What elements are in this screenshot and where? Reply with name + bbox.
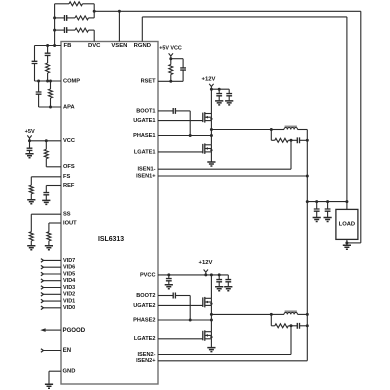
junction COMP-D (49, 80, 52, 83)
wire PHASE1 line (158, 135, 211, 137)
wire branchC bot (38, 94, 40, 107)
svg-text:REF: REF (63, 183, 75, 189)
junction outcap-b (326, 200, 329, 203)
junction vcc-ofs (45, 139, 48, 142)
input arrow VID5 (41, 272, 44, 276)
wire load stem bottom (346, 239, 348, 245)
wire ss drop (30, 214, 32, 232)
svg-text:FB: FB (64, 43, 72, 49)
svg-text:IOUT: IOUT (63, 220, 77, 226)
svg-text:VID1: VID1 (63, 299, 75, 305)
ground q4 source (207, 348, 215, 352)
wire phase1 out (211, 129, 271, 131)
junction boot1-phase (189, 134, 192, 137)
resistor R row2 (75, 16, 89, 20)
capacitor C out-a (314, 209, 320, 211)
wire 12v cap feed1 (211, 88, 229, 90)
wire sense2 left stub (271, 325, 275, 327)
capacitor C pvcc (166, 279, 172, 281)
svg-text:GND: GND (63, 369, 76, 375)
capacitor C boot1 (173, 108, 175, 114)
wire 12v capb top (228, 89, 230, 93)
wire iout drop (48, 223, 50, 232)
wire 12v2 capb bot (227, 282, 229, 287)
svg-text:+5V: +5V (25, 129, 35, 135)
wire sense1 drop (270, 130, 272, 141)
output arrow PGOOD (40, 328, 45, 332)
wire row1 right stub (83, 3, 95, 5)
wire vcc cap top (29, 141, 31, 148)
wire ISEN1- line (158, 168, 291, 170)
svg-text:VID5: VID5 (63, 271, 75, 277)
ground vcc cap (25, 154, 33, 158)
wire 12v capa bot (218, 96, 220, 101)
input arrow VID7 (41, 259, 44, 263)
svg-text:SS: SS (63, 212, 71, 218)
resistor R comp-apa (49, 89, 53, 98)
wire pvcc cap bot (168, 281, 170, 285)
wire q4 source (210, 339, 212, 348)
wire phase2 out (211, 313, 271, 315)
ground 12v2 capa (215, 287, 223, 291)
wire row3 right (89, 29, 95, 31)
junction 12v2 rail (210, 273, 213, 276)
junction outcap-a (315, 200, 318, 203)
resistor R fs (29, 185, 33, 194)
wire L1 out (298, 129, 308, 131)
ground out-a (313, 218, 321, 222)
ground out-b (324, 218, 332, 222)
transistor Q1 upper nmos (202, 113, 204, 123)
svg-text:EN: EN (63, 348, 71, 354)
svg-text:PGOOD: PGOOD (63, 327, 86, 334)
ground q2 source (207, 162, 215, 166)
wire ref drop (45, 186, 47, 193)
junction sense2 mid (290, 324, 293, 327)
wire to L2 (271, 313, 284, 315)
resistor R ss (29, 232, 33, 241)
svg-text:LOAD: LOAD (339, 222, 355, 228)
ground iout (45, 246, 53, 250)
svg-text:+12V: +12V (202, 77, 216, 83)
wire phase1 vertical (210, 121, 212, 145)
wire pvcc cap top (168, 275, 170, 279)
ground load (343, 245, 351, 249)
ground pvcc cap (165, 285, 173, 289)
capacitor C sense2 (297, 323, 299, 329)
capacitor C boot2 (173, 293, 175, 299)
wire FB riser (54, 4, 56, 46)
wire FS line (31, 176, 61, 178)
svg-text:+12V: +12V (199, 260, 213, 266)
load box (336, 209, 358, 239)
wire 12v capb bot (228, 96, 230, 101)
wire iout res bot (48, 241, 50, 246)
wire sense1 right (300, 139, 308, 141)
resistor R rset (169, 65, 173, 75)
svg-text:BOOT1: BOOT1 (136, 108, 155, 114)
capacitor C comp-apa (36, 92, 42, 94)
wire VCC line (30, 140, 62, 142)
wire boot1 right (175, 110, 190, 112)
resistor R iout (47, 232, 51, 241)
svg-text:DVC: DVC (88, 43, 101, 49)
wire rset branch top (171, 58, 183, 60)
wire ISEN2+ line (158, 360, 307, 362)
wire PVCC line (158, 274, 228, 276)
junction RSET (169, 80, 172, 83)
svg-text:VCC: VCC (63, 138, 75, 144)
resistor R ofs (44, 149, 48, 158)
junction out-sense (345, 200, 348, 203)
junction rail-sense1 (306, 139, 309, 142)
resistor R1 row1 (69, 2, 83, 6)
capacitor C 12v-b (226, 94, 232, 96)
junction FB-B (46, 44, 49, 47)
input arrow VID3 (41, 286, 44, 290)
svg-text:RGND: RGND (134, 43, 151, 49)
wire 12v2 capa bot (218, 282, 220, 287)
svg-text:RSET: RSET (141, 79, 157, 85)
junction phase2 out (210, 313, 213, 316)
inductor L2 (285, 310, 297, 312)
wire isen2- drop (290, 326, 292, 355)
wire branchD bot (50, 98, 52, 107)
wire ofs res bot (45, 159, 47, 167)
wire drain rail2 (210, 275, 212, 298)
supply +12V arrow phase1 (209, 84, 213, 89)
junction sense1 tap (270, 128, 273, 131)
junction pvcc cap (167, 273, 170, 276)
wire remote sense inner drop (346, 17, 348, 202)
svg-text:PHASE2: PHASE2 (133, 317, 155, 323)
wire 12v capa top (218, 89, 220, 93)
wire row1 left stub (55, 3, 69, 5)
junction COMP-B (46, 80, 49, 83)
wire RSET line (158, 80, 183, 82)
junction vcc-5v (28, 139, 31, 142)
wire outcapb bot (327, 211, 329, 217)
wire row2 right (89, 17, 95, 19)
transistor Q4 lower nmos (202, 331, 204, 341)
resistor R sense2 (275, 324, 289, 328)
wire sense1 left stub (271, 139, 275, 141)
wire ss res bot (30, 241, 32, 246)
input arrow VID1 (41, 299, 44, 303)
input arrow VID0 (41, 306, 44, 310)
ground 12v2 capb (224, 287, 232, 291)
wire RGND stub (141, 17, 143, 42)
wire row2 mid (67, 17, 75, 19)
wire ISEN1+ line (158, 175, 307, 177)
svg-text:FS: FS (63, 174, 70, 180)
wire row3 mid (67, 29, 75, 31)
wire output line (307, 201, 347, 203)
wire to L1 (271, 129, 284, 131)
wire row1 drop (93, 4, 95, 18)
resistor R row3 (75, 28, 89, 32)
wire GND line (49, 370, 61, 372)
wire vcc cap bot (29, 151, 31, 154)
junction COMP-C (37, 80, 40, 83)
svg-text:PHASE1: PHASE1 (133, 133, 155, 139)
input arrow VID2 (41, 293, 44, 297)
capacitor C fb-comp (32, 61, 38, 63)
wire PHASE2 line (158, 319, 211, 321)
input arrow EN (41, 349, 44, 353)
ground GND pin (45, 384, 53, 388)
wire ref cap bot (45, 195, 47, 201)
svg-text:ISEN2-: ISEN2- (137, 352, 155, 358)
junction FB-vert (53, 44, 56, 47)
svg-text:LGATE2: LGATE2 (134, 336, 156, 342)
wire phase2 vertical (210, 305, 212, 331)
wire branchB mid (47, 56, 49, 63)
wire L2 out (298, 313, 308, 315)
wire remote sense outer drop (360, 11, 362, 243)
wire branchD top (50, 81, 52, 89)
wire VSEN stub (118, 11, 120, 41)
wire SS line (31, 213, 61, 215)
junction row2 tap (53, 16, 56, 19)
wire BOOT1 line (158, 110, 173, 112)
junction VSEN tap (118, 10, 121, 13)
wire rset res bot (170, 75, 172, 82)
svg-text:LGATE1: LGATE1 (134, 149, 156, 155)
svg-text:ISL6313: ISL6313 (98, 236, 124, 243)
wire LGATE2 line (158, 338, 203, 340)
wire fs drop (30, 177, 32, 185)
wire IOUT line (49, 222, 61, 224)
junction rows node (93, 10, 96, 13)
junction rset top (169, 57, 172, 60)
junction rail-sense2 (306, 324, 309, 327)
svg-text:VID6: VID6 (63, 265, 75, 271)
wire rset cap drop (182, 59, 184, 68)
wire boot2 right (175, 295, 190, 297)
wire row2 left (55, 17, 65, 19)
junction 12v cap1 (218, 88, 221, 91)
ground fs (27, 200, 35, 204)
svg-text:VID7: VID7 (63, 258, 75, 264)
wire sense2 right (300, 325, 308, 327)
wire fs res bot (30, 194, 32, 200)
svg-text:ISEN2+: ISEN2+ (136, 358, 156, 364)
capacitor C rset (180, 68, 186, 70)
inductor L1 (285, 126, 297, 128)
wire row3 left (55, 29, 65, 31)
resistor R sense1 (275, 138, 289, 142)
supply +5V VCC arrow (169, 53, 173, 58)
capacitor C ref (43, 193, 49, 195)
wire branchB top (47, 46, 49, 54)
capacitor C out-b (325, 209, 331, 211)
wire isen1- drop (290, 140, 292, 169)
wire outcapb top (327, 202, 329, 209)
wire branchB bot (47, 73, 49, 81)
wire UGATE2 line (158, 304, 203, 306)
transistor Q2 lower nmos (202, 144, 204, 154)
capacitor C 12v-a (216, 94, 222, 96)
junction phase1 pin (210, 134, 213, 137)
svg-text:APA: APA (63, 104, 75, 110)
junction boot2-phase (189, 319, 192, 322)
junction +12V node1 (210, 88, 213, 91)
wire q2 source (210, 152, 212, 162)
wire sense jog (347, 242, 361, 244)
capacitor C 12v2-b (225, 280, 231, 282)
supply +12V arrow phase2 (204, 270, 208, 275)
wire OFS line (46, 166, 61, 168)
IC body ISL6313 (61, 42, 158, 385)
svg-text:VID4: VID4 (63, 278, 76, 284)
svg-text:VSEN: VSEN (111, 43, 127, 49)
wire 12v2 capa top (218, 275, 220, 280)
wire DVC stub (93, 30, 95, 41)
junction 12v2 capa (218, 273, 221, 276)
wire APA line (39, 106, 61, 108)
supply +5V arrow (27, 135, 31, 140)
wire boot1 drop (189, 111, 191, 136)
wire ofs res top (45, 141, 47, 150)
svg-text:ISEN1+: ISEN1+ (136, 173, 156, 179)
svg-text:VID3: VID3 (63, 285, 75, 291)
wire FB node line (35, 45, 62, 47)
wire sense2 mid (288, 325, 297, 327)
wire rset cap bot (182, 70, 184, 81)
svg-text:BOOT2: BOOT2 (136, 293, 155, 299)
svg-text:COMP: COMP (63, 78, 80, 84)
wire UGATE1 line (158, 120, 203, 122)
junction phase1 out (210, 128, 213, 131)
wire load stem top (346, 202, 348, 210)
svg-text:VID0: VID0 (63, 305, 75, 311)
wire COMP line (35, 80, 62, 82)
wire branchC top (38, 81, 40, 92)
svg-text:VID2: VID2 (63, 292, 75, 298)
svg-text:UGATE1: UGATE1 (133, 118, 155, 124)
svg-text:OFS: OFS (63, 164, 75, 170)
wire drain rail1 (210, 89, 212, 113)
ground 12v capa (215, 101, 223, 105)
capacitor C 12v2-a (216, 280, 222, 282)
wire vout rail (306, 130, 308, 361)
input arrow VID6 (41, 265, 44, 269)
capacitor C sense1 (297, 137, 299, 143)
svg-text:+5V VCC: +5V VCC (159, 46, 182, 52)
wire ISEN2- line (158, 354, 291, 356)
wire outcapa bot (316, 211, 318, 217)
wire VSEN sense line (94, 10, 361, 12)
svg-text:ISEN1-: ISEN1- (137, 167, 155, 173)
wire gnd drop (48, 371, 50, 384)
wire sense2 drop (270, 314, 272, 325)
wire REF line (46, 185, 61, 187)
wire outcapa top (316, 202, 318, 209)
junction phase2 pin (210, 319, 213, 322)
wire 12v2 capb top (227, 275, 229, 280)
junction rail-isen1+ (306, 175, 309, 178)
input arrow VID4 (41, 279, 44, 283)
wire branchA bot (34, 64, 36, 81)
svg-text:PVCC: PVCC (140, 272, 156, 278)
wire RGND sense line (142, 16, 347, 18)
transistor Q3 upper nmos (202, 297, 204, 307)
capacitor C branchB (45, 53, 51, 55)
ground ref (42, 200, 50, 204)
capacitor C row2 (65, 15, 67, 21)
ground 12v capb (225, 101, 233, 105)
junction APA-D (49, 106, 52, 109)
wire boot2 drop (189, 296, 191, 321)
junction rail-L2 (306, 313, 309, 316)
resistor R branchB (46, 63, 50, 73)
junction rail-out (306, 200, 309, 203)
wire rset res top (170, 59, 172, 65)
junction sense1 mid (290, 139, 293, 142)
junction sense2 tap (270, 313, 273, 316)
junction load gnd sense (345, 241, 348, 244)
capacitor C row3 (65, 27, 67, 33)
wire sense1 mid (288, 139, 297, 141)
wire BOOT2 line (158, 295, 173, 297)
wire branchA top (34, 46, 36, 62)
wire LGATE1 line (158, 151, 203, 153)
junction row3 tap (53, 29, 56, 32)
ground ss (27, 246, 35, 250)
capacitor C vcc (27, 148, 33, 150)
svg-text:UGATE2: UGATE2 (133, 303, 155, 309)
junction 12v2 arrow (204, 273, 207, 276)
